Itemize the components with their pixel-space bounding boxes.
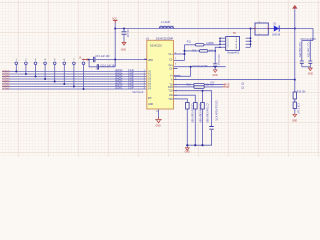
svg-text:LED8C: LED8C <box>115 88 123 90</box>
svg-text:R16 10k: R16 10k <box>297 92 306 94</box>
svg-text:GND: GND <box>185 152 190 154</box>
svg-text:Header4X2: Header4X2 <box>228 51 240 54</box>
svg-text:C4 104: C4 104 <box>126 30 128 38</box>
svg-text:R11: R11 <box>187 41 192 43</box>
svg-text:T2O: T2O <box>168 99 173 101</box>
svg-text:GND: GND <box>156 125 161 127</box>
svg-text:C8 0.1uF/16V X7R: C8 0.1uF/16V X7R <box>215 101 218 121</box>
svg-text:V-: V- <box>171 80 173 82</box>
svg-text:5V: 5V <box>233 32 236 35</box>
svg-text:C6 10uF/16V X5R: C6 10uF/16V X5R <box>199 104 202 124</box>
svg-text:T1O: T1O <box>168 91 173 93</box>
svg-text:GND: GND <box>308 73 313 75</box>
svg-text:[2]: [2] <box>242 88 245 90</box>
svg-text:GND: GND <box>148 104 153 106</box>
svg-text:C18 0.1uF: C18 0.1uF <box>297 103 299 114</box>
svg-text:C17 10uF/25V: C17 10uF/25V <box>307 43 309 58</box>
svg-text:R12: R12 <box>192 50 197 52</box>
svg-text:DS14C232: DS14C232 <box>150 45 162 48</box>
svg-text:C13 0.1uF 560: C13 0.1uF 560 <box>192 66 208 68</box>
svg-text:DS14C232CMP: DS14C232CMP <box>156 37 173 40</box>
svg-text:C1-: C1- <box>169 60 173 62</box>
svg-text:GND: GND <box>212 75 217 77</box>
svg-text:LED8C: LED8C <box>2 88 10 91</box>
svg-text:R1O: R1O <box>168 87 173 89</box>
svg-text:TXD: TXD <box>225 86 230 89</box>
svg-text:C1+: C1+ <box>169 54 174 56</box>
svg-text:C10 1.1uF 16V: C10 1.1uF 16V <box>100 66 116 68</box>
svg-text:R13: R13 <box>187 85 192 87</box>
svg-text:TXD: TXD <box>210 82 215 84</box>
svg-text:C2-: C2- <box>169 68 173 70</box>
svg-text:C9 1.1uF 16V: C9 1.1uF 16V <box>96 56 111 58</box>
svg-text:10k R14: 10k R14 <box>206 85 215 87</box>
svg-text:C15 0.1uF: C15 0.1uF <box>217 55 219 66</box>
svg-text:C12 0.1uF: C12 0.1uF <box>133 92 144 94</box>
svg-text:C7 10uF/16V X5R: C7 10uF/16V X5R <box>206 104 209 124</box>
svg-text:0.1uF: 0.1uF <box>128 88 134 90</box>
svg-text:C5 10uF/16V X5R: C5 10uF/16V X5R <box>191 104 194 124</box>
svg-text:C2+: C2+ <box>169 65 174 67</box>
svg-text:GND: GND <box>121 49 126 51</box>
svg-text:10k560: 10k560 <box>206 43 214 45</box>
svg-text:GND: GND <box>292 121 297 123</box>
svg-text:C16 10uF/25V: C16 10uF/25V <box>298 43 300 58</box>
svg-text:C16 0.1uF/25V: C16 0.1uF/25V <box>301 39 317 41</box>
svg-text:VDD: VDD <box>148 60 153 62</box>
svg-text:[2]: [2] <box>242 84 245 86</box>
svg-text:INT: INT <box>148 98 152 100</box>
svg-text:R1I: R1I <box>169 95 173 97</box>
svg-text:L1 10uH: L1 10uH <box>161 21 170 24</box>
svg-text:1N4148: 1N4148 <box>272 35 281 37</box>
